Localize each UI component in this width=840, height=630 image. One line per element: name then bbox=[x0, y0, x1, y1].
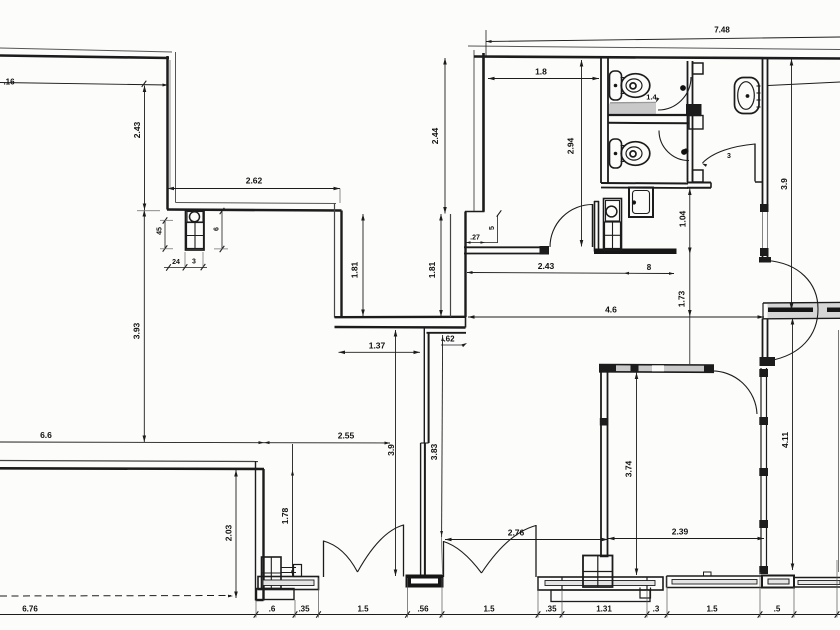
svg-text:1.5: 1.5 bbox=[706, 605, 718, 614]
svg-text:3.93: 3.93 bbox=[132, 322, 142, 339]
svg-text:.16: .16 bbox=[3, 78, 15, 87]
svg-text:2.76: 2.76 bbox=[508, 528, 525, 538]
svg-text:1.81: 1.81 bbox=[427, 261, 437, 278]
svg-text:2.62: 2.62 bbox=[246, 176, 263, 186]
svg-text:.35: .35 bbox=[545, 605, 557, 614]
svg-text:2.43: 2.43 bbox=[132, 121, 142, 138]
svg-text:.35: .35 bbox=[298, 605, 310, 614]
svg-text:1.4: 1.4 bbox=[646, 93, 657, 102]
svg-text:.62: .62 bbox=[443, 335, 455, 344]
svg-text:6.6: 6.6 bbox=[40, 430, 52, 440]
svg-text:.5: .5 bbox=[774, 605, 781, 614]
svg-text:1.78: 1.78 bbox=[280, 507, 290, 524]
svg-text:3.74: 3.74 bbox=[624, 460, 634, 477]
svg-text:4.6: 4.6 bbox=[605, 305, 617, 315]
svg-text:1.81: 1.81 bbox=[350, 261, 360, 278]
svg-text:.3: .3 bbox=[653, 605, 660, 614]
svg-text:1.04: 1.04 bbox=[678, 210, 688, 227]
svg-text:3: 3 bbox=[192, 259, 196, 266]
svg-text:3.9: 3.9 bbox=[779, 178, 789, 190]
svg-text:2.94: 2.94 bbox=[566, 137, 576, 154]
svg-text:1.8: 1.8 bbox=[535, 67, 547, 77]
svg-text:1.5: 1.5 bbox=[483, 605, 495, 614]
svg-text:45: 45 bbox=[157, 227, 164, 235]
svg-text:2.55: 2.55 bbox=[338, 431, 355, 441]
svg-text:1.73: 1.73 bbox=[677, 290, 687, 307]
svg-text:1.5: 1.5 bbox=[357, 605, 369, 614]
svg-text:.56: .56 bbox=[417, 605, 429, 614]
svg-text:3.83: 3.83 bbox=[429, 443, 439, 460]
svg-text:24: 24 bbox=[172, 259, 180, 266]
svg-text:3.9: 3.9 bbox=[386, 444, 396, 456]
svg-text:2.44: 2.44 bbox=[430, 127, 440, 144]
svg-text:7.48: 7.48 bbox=[714, 26, 730, 35]
svg-text:4.11: 4.11 bbox=[780, 432, 790, 448]
svg-text:2.43: 2.43 bbox=[538, 261, 555, 271]
svg-text:.27: .27 bbox=[470, 235, 480, 242]
svg-text:1.37: 1.37 bbox=[369, 341, 386, 351]
svg-text:2.39: 2.39 bbox=[672, 527, 689, 537]
svg-text:3: 3 bbox=[727, 153, 731, 160]
svg-text:8: 8 bbox=[647, 263, 652, 272]
svg-text:5: 5 bbox=[489, 226, 496, 230]
svg-text:6.76: 6.76 bbox=[22, 605, 38, 614]
svg-text:.6: .6 bbox=[269, 605, 276, 614]
svg-text:1.31: 1.31 bbox=[596, 605, 612, 614]
svg-text:2.03: 2.03 bbox=[224, 524, 234, 541]
svg-text:6: 6 bbox=[214, 227, 221, 231]
